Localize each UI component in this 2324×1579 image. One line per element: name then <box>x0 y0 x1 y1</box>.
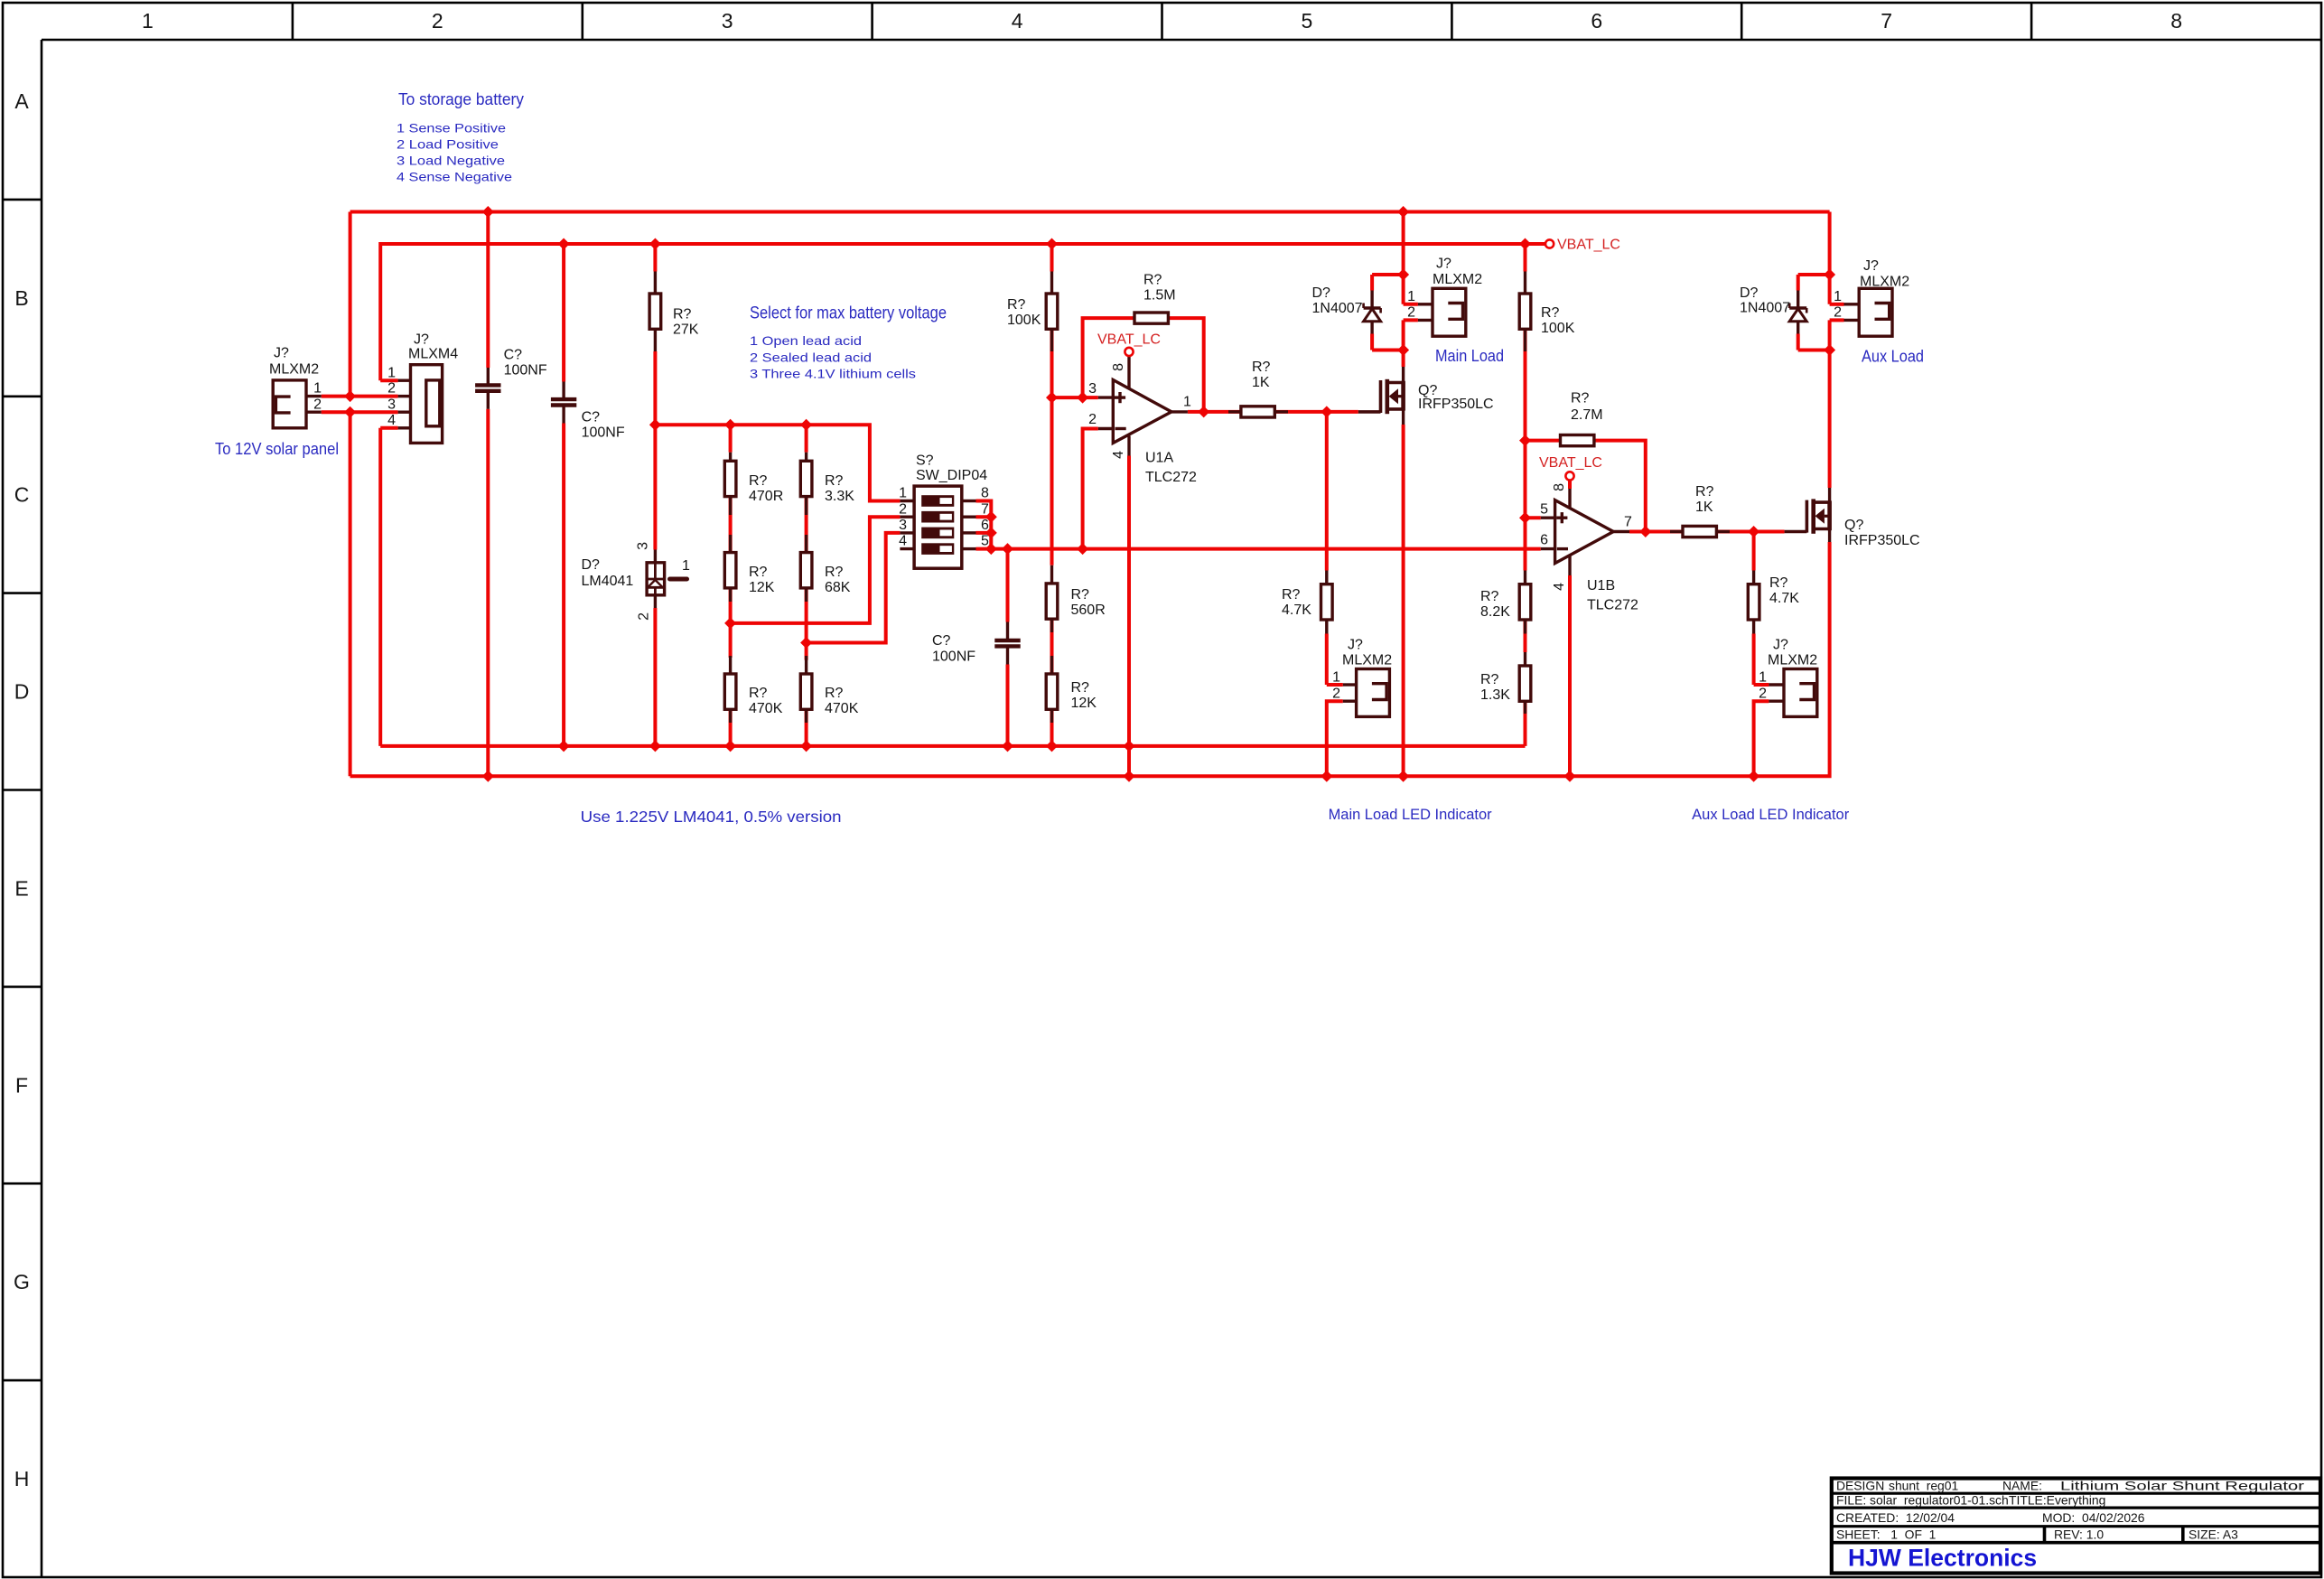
svg-text:R?: R? <box>1071 587 1090 603</box>
svg-text:E: E <box>14 876 28 900</box>
title block <box>1832 1479 2320 1574</box>
resistor R2 470R <box>724 453 783 515</box>
junction LM4041 bottom <box>649 740 661 752</box>
svg-text:Main Load: Main Load <box>1435 346 1504 365</box>
svg-text:A: A <box>14 89 29 113</box>
svg-text:D?: D? <box>582 557 601 573</box>
wire: outer rail left vertical lower segment <box>349 412 352 776</box>
wire: R4.7K-1 chain to LED1 <box>1325 412 1329 571</box>
resistor R5 68K <box>800 535 850 602</box>
junction solar pin2/ground vertical <box>344 406 356 418</box>
connector J5 MLXM2 aux load <box>1834 258 1909 336</box>
resistor R14 100K right <box>1519 272 1574 352</box>
junction wire A / R470R <box>724 419 736 431</box>
svg-text:4: 4 <box>1012 9 1023 33</box>
junction U1B pin4 / outer rail <box>1564 771 1576 782</box>
junction DIP pin7 <box>985 511 997 523</box>
junction R100K-right top <box>1519 238 1531 250</box>
svg-text:R?: R? <box>825 565 844 580</box>
wire: outer rail left vertical upper segment <box>349 212 352 397</box>
junction LM4041 ref node / wire A <box>649 419 661 431</box>
wire: aux connector pin stub wires <box>1830 303 1844 306</box>
switch S1 SW_DIP04 <box>899 453 989 569</box>
svg-text:B: B <box>14 286 28 310</box>
svg-text:R?: R? <box>749 565 768 580</box>
connector J3 MLXM2 main load <box>1407 257 1482 337</box>
junction solar pin1/outer rail <box>344 390 356 402</box>
svg-text:6: 6 <box>1540 533 1548 548</box>
junction DIP pin6 <box>985 527 997 538</box>
svg-text:R?: R? <box>1695 484 1714 500</box>
junction U1A pin4 / inner rail <box>1124 740 1135 752</box>
wire: positive feedback R1.5M left leg <box>1083 318 1134 397</box>
svg-text:DESIGNshunt_reg01NAME:Lithium: DESIGNshunt_reg01NAME:Lithium Solar Shun… <box>1836 1479 2305 1493</box>
svg-text:C: C <box>14 483 30 507</box>
svg-text:2: 2 <box>1088 412 1097 427</box>
svg-text:R?: R? <box>825 686 844 701</box>
svg-text:3: 3 <box>387 397 396 412</box>
diode D3 1N4007 aux flyback <box>1740 285 1806 334</box>
wire: R1.5M right leg to output <box>1168 318 1203 412</box>
wire: U1B pin5 input <box>1526 516 1541 519</box>
svg-text:3: 3 <box>1088 381 1097 397</box>
svg-text:5: 5 <box>1302 9 1313 33</box>
op-amp U1A TLC272 <box>1088 332 1197 486</box>
svg-text:2: 2 <box>387 381 396 397</box>
svg-text:R?: R? <box>1571 391 1590 406</box>
svg-text:5: 5 <box>981 534 989 549</box>
svg-text:U1A: U1A <box>1145 451 1173 466</box>
svg-text:Q?: Q? <box>1844 518 1863 533</box>
junction column2 bottom <box>800 740 812 752</box>
svg-text:560R: 560R <box>1071 603 1106 618</box>
connector J2 MLXM4 battery <box>387 332 458 444</box>
junction C3 / wire D <box>1002 543 1013 555</box>
resistor R3 3.3K <box>800 453 854 515</box>
svg-text:4: 4 <box>899 534 907 549</box>
svg-text:1: 1 <box>1407 289 1415 304</box>
svg-text:2: 2 <box>899 501 907 517</box>
svg-text:100K: 100K <box>1007 313 1041 328</box>
connector J4 MLXM2 main LED <box>1332 638 1392 717</box>
junction gate2 / R4.7K-2 <box>1748 526 1759 537</box>
svg-text:4: 4 <box>387 413 396 428</box>
svg-text:S?: S? <box>916 453 934 469</box>
capacitor C1 100NF <box>475 348 547 409</box>
wire D: comparator threshold net <box>976 547 1541 551</box>
svg-text:1N4007: 1N4007 <box>1312 301 1363 316</box>
wire: Q1 source to ground <box>1402 425 1405 776</box>
svg-text:1 Sense Positive: 1 Sense Positive <box>397 122 506 135</box>
svg-text:5: 5 <box>1540 502 1548 518</box>
svg-text:1: 1 <box>1759 669 1767 685</box>
svg-text:TLC272: TLC272 <box>1587 598 1638 613</box>
svg-text:FILE: solar_regulator01-01.sch: FILE: solar_regulator01-01.schTITLE:Ever… <box>1836 1493 2105 1508</box>
svg-text:Aux Load LED Indicator: Aux Load LED Indicator <box>1692 807 1850 823</box>
wire: R1K-2 to Q2 gate <box>1716 530 1784 534</box>
label: select note <box>750 304 947 381</box>
svg-text:12K: 12K <box>1071 696 1097 711</box>
wire: U1A pin3 input <box>1052 396 1098 399</box>
junction main drain / top rail <box>1397 206 1409 218</box>
svg-text:R?: R? <box>1252 360 1271 375</box>
svg-text:C?: C? <box>932 633 951 649</box>
svg-text:MLXM4: MLXM4 <box>408 347 458 362</box>
wire: U1B output to R1K-2 <box>1629 530 1683 534</box>
svg-text:TLC272: TLC272 <box>1145 470 1197 485</box>
wire: aux diode jogs <box>1798 273 1830 276</box>
svg-text:C?: C? <box>582 410 601 425</box>
wire: MLXM4 pin4 to inner bottom <box>380 426 397 430</box>
junction right divider / R2.7M <box>1519 434 1531 446</box>
svg-text:J?: J? <box>414 332 429 348</box>
resistor R10 12K <box>1046 656 1097 723</box>
label: battery pinout note <box>397 122 512 184</box>
resistor R8 100K <box>1007 272 1058 352</box>
wire: solar pin2 row <box>322 410 398 414</box>
wire: solar pin1 row <box>322 395 398 398</box>
svg-text:470K: 470K <box>749 701 783 716</box>
svg-text:Aux Load: Aux Load <box>1862 347 1924 366</box>
svg-text:MLXM2: MLXM2 <box>1860 275 1909 290</box>
junction divider bottom <box>1046 740 1058 752</box>
wire A: reference top rail of divider network <box>655 425 900 500</box>
svg-text:J?: J? <box>274 346 289 361</box>
svg-text:1: 1 <box>313 381 322 397</box>
svg-text:MLXM2: MLXM2 <box>1342 653 1392 668</box>
svg-text:4.7K: 4.7K <box>1282 603 1311 618</box>
wire: C2 leads <box>562 244 565 382</box>
svg-text:470K: 470K <box>825 701 859 716</box>
svg-text:1: 1 <box>142 9 154 33</box>
junction wire C tap <box>800 637 812 649</box>
wire: DIP pin6 stub wire <box>976 531 992 535</box>
svg-text:R?: R? <box>749 686 768 701</box>
svg-text:R?: R? <box>673 307 692 322</box>
wire: inner rail left vertical lower segment to bottom <box>378 428 382 746</box>
svg-text:Select for max battery voltage: Select for max battery voltage <box>750 304 947 323</box>
svg-text:D?: D? <box>1312 285 1331 301</box>
resistor R18 1K right <box>1670 484 1730 537</box>
svg-text:68K: 68K <box>825 580 851 595</box>
svg-text:7: 7 <box>1881 9 1892 33</box>
svg-text:4 Sense Negative: 4 Sense Negative <box>397 171 512 184</box>
resistor R12 1K <box>1228 360 1288 417</box>
wire: outer bottom rail (load negative) <box>350 542 1830 776</box>
wire: LED1 pin2 down to outer rail <box>1327 701 1343 776</box>
svg-text:J?: J? <box>1348 638 1363 653</box>
svg-text:D?: D? <box>1740 285 1759 301</box>
svg-text:R?: R? <box>1541 305 1560 321</box>
svg-text:J?: J? <box>1773 638 1788 653</box>
junction C1 top <box>482 206 494 218</box>
svg-text:3: 3 <box>899 518 907 533</box>
svg-text:1.5M: 1.5M <box>1143 288 1176 304</box>
svg-text:4: 4 <box>1111 451 1126 459</box>
svg-text:MLXM2: MLXM2 <box>1433 272 1482 287</box>
wire: U1A pin4 to ground rails <box>1127 456 1131 777</box>
connector J6 MLXM2 aux LED <box>1759 638 1817 717</box>
wire: U1A pin2 to wire D <box>1083 429 1098 549</box>
svg-text:R?: R? <box>1769 575 1788 591</box>
wire: main drain vertical <box>1402 212 1405 304</box>
junction divider/U1A pin3 <box>1046 392 1058 404</box>
junction gate / R4.7K <box>1321 406 1332 417</box>
wire: VBAT sense inner top rail <box>380 244 1545 380</box>
junction diode2 cathode jog <box>1824 269 1835 281</box>
resistor R11 1.5M <box>1134 273 1176 324</box>
wire: DIP pin8 to common <box>976 501 992 549</box>
wire: C1 leads <box>486 212 490 369</box>
svg-text:Use 1.225V LM4041, 0.5% versio: Use 1.225V LM4041, 0.5% version <box>581 808 842 826</box>
svg-text:3.3K: 3.3K <box>825 489 854 504</box>
svg-text:1K: 1K <box>1252 375 1270 390</box>
svg-text:R?: R? <box>749 473 768 489</box>
junction U1A pin3 / feedback <box>1077 392 1088 404</box>
junction C1 bottom <box>482 771 494 782</box>
resistor R17 1.3K <box>1480 652 1531 714</box>
svg-text:Main Load LED Indicator: Main Load LED Indicator <box>1329 807 1493 823</box>
svg-text:R?: R? <box>1480 589 1499 604</box>
svg-text:H: H <box>14 1467 30 1490</box>
svg-text:1: 1 <box>1183 395 1191 410</box>
wire: DIP pin7 stub wire <box>976 515 992 519</box>
wire: R470R-R12K column <box>729 425 733 452</box>
svg-text:VBAT_LC: VBAT_LC <box>1539 455 1602 471</box>
svg-text:R?: R? <box>825 473 844 489</box>
wire: R1K to Q1 gate <box>1274 410 1358 414</box>
junction U1A pin2 / wire D <box>1077 543 1088 555</box>
junction wire A / R3.3K <box>800 419 812 431</box>
svg-text:12K: 12K <box>749 580 775 595</box>
svg-text:1: 1 <box>899 486 907 501</box>
wire: U1B pin4 to outer rail <box>1568 575 1572 776</box>
svg-text:1: 1 <box>682 558 690 574</box>
wire B: column1 tap to DIP pin2 <box>731 517 901 623</box>
diode D1 LM4041 shunt reference <box>582 542 691 621</box>
svg-text:2: 2 <box>313 397 322 412</box>
svg-text:2 Sealed lead acid: 2 Sealed lead acid <box>750 350 872 364</box>
resistor R19 4.7K aux LED <box>1748 571 1799 634</box>
junction C2 bottom <box>558 740 570 752</box>
wire C: column2 tap to DIP pin3 <box>807 533 901 643</box>
svg-text:4.7K: 4.7K <box>1769 591 1799 606</box>
junction U1A output / feedback <box>1198 406 1209 417</box>
wire: R2.7M right leg to U1B output <box>1594 441 1646 532</box>
wire: LED2 pin2 down to outer rail <box>1754 701 1769 776</box>
wire: main load diode jogs <box>1372 273 1404 276</box>
svg-text:IRFP350LC: IRFP350LC <box>1844 533 1920 548</box>
svg-text:LM4041: LM4041 <box>582 574 634 589</box>
junction U1B output / feedback <box>1639 526 1651 537</box>
svg-text:100NF: 100NF <box>504 363 547 378</box>
junction U1A pin4 / outer rail <box>1124 771 1135 782</box>
svg-text:C?: C? <box>504 348 523 363</box>
svg-text:8: 8 <box>1552 483 1567 491</box>
svg-text:1: 1 <box>387 365 396 380</box>
junction Q1 source / outer rail <box>1397 771 1409 782</box>
resistor R16 8.2K <box>1480 571 1531 634</box>
svg-text:J?: J? <box>1436 257 1451 272</box>
junction diode2 anode jog <box>1824 344 1835 356</box>
resistor R4 12K <box>724 535 774 602</box>
connector J1 MLXM2 solar input <box>269 346 322 428</box>
svg-text:8.2K: 8.2K <box>1480 604 1510 620</box>
transistor Q1 IRFP350LC <box>1358 367 1494 425</box>
wire: C3 bottom lead <box>1006 665 1010 746</box>
capacitor C2 100NF <box>551 382 625 441</box>
wire: C3 top lead <box>1006 549 1010 622</box>
junction wire B tap <box>724 617 736 629</box>
svg-text:R?: R? <box>1143 273 1162 288</box>
wire: right divider column R100K/R8.2K/R1.3K <box>1524 244 1527 272</box>
svg-text:1 Open lead acid: 1 Open lead acid <box>750 333 862 348</box>
svg-text:2 Load Positive: 2 Load Positive <box>397 138 499 152</box>
svg-text:8: 8 <box>2170 9 2182 33</box>
resistor R1 27K <box>649 272 699 352</box>
svg-text:VBAT_LC: VBAT_LC <box>1097 332 1161 348</box>
svg-text:R?: R? <box>1282 587 1301 603</box>
wire: inner bottom rail (sense negative) <box>380 744 1525 748</box>
svg-text:1N4007: 1N4007 <box>1740 301 1790 316</box>
svg-text:4: 4 <box>1552 583 1567 591</box>
svg-text:2: 2 <box>1834 305 1842 321</box>
svg-text:U1B: U1B <box>1587 578 1615 593</box>
junction C2 top <box>558 238 570 250</box>
svg-text:HJW Electronics: HJW Electronics <box>1848 1545 2037 1572</box>
wire: R27K chain / LM4041 chain <box>653 244 657 272</box>
junction diode1 anode jog <box>1397 344 1409 356</box>
wire: R3.3K-R68K column <box>805 425 808 452</box>
svg-text:3 Load Negative: 3 Load Negative <box>397 154 505 168</box>
junction LED2 pin2 / outer rail <box>1748 771 1759 782</box>
svg-text:3: 3 <box>722 9 733 33</box>
svg-text:To storage battery: To storage battery <box>398 89 525 108</box>
junction right divider / U1B pin5 <box>1519 512 1531 524</box>
svg-text:D: D <box>14 680 30 704</box>
svg-text:SW_DIP04: SW_DIP04 <box>916 468 987 483</box>
svg-text:J?: J? <box>1863 258 1879 274</box>
svg-text:To 12V solar panel: To 12V solar panel <box>215 439 339 458</box>
junction R27K top <box>649 238 661 250</box>
resistor R13 4.7K main LED <box>1282 571 1332 634</box>
svg-text:27K: 27K <box>673 322 699 338</box>
svg-text:2: 2 <box>1407 305 1415 321</box>
svg-text:8: 8 <box>1111 363 1126 371</box>
svg-text:MLXM2: MLXM2 <box>269 361 319 377</box>
op-amp U1B TLC272 <box>1539 455 1638 613</box>
svg-text:G: G <box>14 1270 30 1294</box>
junction diode1 cathode jog <box>1397 269 1409 281</box>
svg-text:MLXM2: MLXM2 <box>1768 653 1817 668</box>
svg-text:R?: R? <box>1480 672 1499 687</box>
svg-text:6: 6 <box>981 518 989 533</box>
wire: battery positive top outer rail <box>350 210 1830 214</box>
junction C3 bottom <box>1002 740 1013 752</box>
resistor R6 470K <box>724 656 782 723</box>
svg-text:2: 2 <box>432 9 443 33</box>
svg-text:VBAT_LC: VBAT_LC <box>1557 238 1620 253</box>
wire: R4.7K-2 chain to LED2 <box>1752 532 1756 571</box>
wire: U1A output to R1K <box>1188 410 1241 414</box>
resistor R7 470K <box>800 656 858 723</box>
wire: R100K/R560R/R12K divider column <box>1050 244 1054 272</box>
svg-text:2.7M: 2.7M <box>1571 407 1603 423</box>
svg-text:470R: 470R <box>749 489 783 504</box>
transistor Q2 IRFP350LC <box>1785 488 1920 548</box>
svg-text:R?: R? <box>1007 297 1026 313</box>
svg-text:R?: R? <box>1071 680 1090 696</box>
svg-text:7: 7 <box>981 501 989 517</box>
capacitor C3 100NF <box>932 622 1021 665</box>
node VBAT_LC net terminal <box>1545 239 1554 248</box>
junction LED1 pin2 / outer rail <box>1321 771 1332 782</box>
svg-text:1.3K: 1.3K <box>1480 687 1510 703</box>
svg-text:1: 1 <box>1332 669 1340 685</box>
resistor R9 560R <box>1046 565 1106 632</box>
svg-text:100NF: 100NF <box>582 425 625 441</box>
svg-text:3 Three 4.1V lithium cells: 3 Three 4.1V lithium cells <box>750 367 916 381</box>
svg-text:IRFP350LC: IRFP350LC <box>1418 397 1494 412</box>
svg-text:2: 2 <box>1759 686 1767 701</box>
svg-text:7: 7 <box>1624 515 1632 530</box>
junction column1 bottom <box>724 740 736 752</box>
svg-text:8: 8 <box>981 486 989 501</box>
svg-text:2: 2 <box>1332 686 1340 701</box>
junction R100K top <box>1046 238 1058 250</box>
svg-text:1: 1 <box>1834 289 1842 304</box>
wire: aux drain vertical <box>1828 212 1832 304</box>
junction DIP common / wire D <box>985 543 997 555</box>
svg-text:F: F <box>15 1073 28 1097</box>
svg-text:100NF: 100NF <box>932 649 975 665</box>
svg-text:6: 6 <box>1591 9 1602 33</box>
resistor R15 2.7M <box>1561 391 1603 446</box>
wire: main connector pin stub wires <box>1404 303 1418 306</box>
wire: MLXM4 pin1 to inner rail <box>380 378 397 382</box>
svg-text:2: 2 <box>637 612 652 621</box>
wire: R2.7M left leg <box>1526 439 1561 443</box>
svg-text:1K: 1K <box>1695 500 1713 515</box>
svg-text:100K: 100K <box>1541 321 1575 336</box>
diode D2 1N4007 main flyback <box>1312 285 1381 334</box>
svg-text:3: 3 <box>636 542 651 550</box>
